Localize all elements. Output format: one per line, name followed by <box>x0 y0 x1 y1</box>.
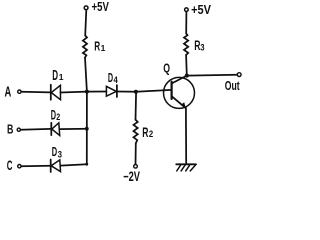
svg-text:1: 1 <box>101 43 106 53</box>
svg-text:2: 2 <box>56 112 60 122</box>
junction node A row <box>85 90 89 94</box>
junction corner C row <box>85 163 88 166</box>
wire +5V to R1 <box>85 10 86 36</box>
wire D3 to corner <box>61 164 87 165</box>
svg-text:D: D <box>52 144 57 159</box>
svg-text:D: D <box>108 71 113 85</box>
svg-text:3: 3 <box>200 42 204 52</box>
wire D2 to node <box>60 128 87 130</box>
Out terminal <box>225 73 241 93</box>
svg-text:A: A <box>5 85 12 101</box>
wire R3 to +5V terminal <box>185 12 187 34</box>
svg-text:D: D <box>52 67 58 84</box>
wire base node down to R2 <box>135 92 138 120</box>
svg-text:R: R <box>94 40 100 54</box>
resistor R3 <box>184 34 205 56</box>
wire common node vertical <box>86 92 88 165</box>
wire B to D2 <box>21 128 52 131</box>
wire emitter down to ground <box>185 108 187 164</box>
resistor R1 <box>83 36 106 58</box>
resistor R2 <box>134 120 154 144</box>
ground <box>176 164 196 171</box>
svg-text:4: 4 <box>114 75 118 85</box>
-2V terminal <box>123 165 140 185</box>
input C terminal <box>7 158 21 173</box>
+5V terminal (right supply) <box>185 2 212 17</box>
junction base node <box>134 90 138 94</box>
junction collector node <box>185 74 189 78</box>
diode D2 <box>51 107 61 135</box>
wire base node to transistor base <box>136 90 172 92</box>
input B terminal <box>7 121 20 136</box>
svg-text:−2V: −2V <box>123 169 140 184</box>
wire R1 to node A-junction <box>85 58 87 92</box>
wire collector node up to R3 <box>185 55 188 76</box>
svg-text:Q: Q <box>163 61 170 76</box>
wire D1 to node <box>61 91 87 94</box>
svg-text:Out: Out <box>225 79 240 93</box>
input A terminal <box>5 85 22 101</box>
transistor Q <box>163 61 194 109</box>
diode D4 <box>106 71 117 97</box>
wire node to D4 <box>87 91 107 93</box>
diode D1 <box>51 67 64 100</box>
svg-text:1: 1 <box>59 72 64 82</box>
svg-text:C: C <box>7 158 13 173</box>
svg-text:+5V: +5V <box>92 0 110 14</box>
wire R2 to -2V terminal <box>135 143 137 164</box>
wire D4 to base node <box>117 91 136 93</box>
wire collector node to Out <box>187 74 237 77</box>
+5V terminal (left supply) <box>84 0 109 14</box>
wire A to D1 <box>21 91 51 94</box>
svg-text:3: 3 <box>58 150 62 161</box>
wire C to D3 <box>21 165 51 168</box>
junction node B row <box>85 127 89 131</box>
svg-text:2: 2 <box>149 129 153 139</box>
svg-text:R: R <box>142 124 148 140</box>
svg-text:+5V: +5V <box>191 2 211 17</box>
svg-text:B: B <box>7 121 13 136</box>
diode D3 <box>51 144 62 172</box>
